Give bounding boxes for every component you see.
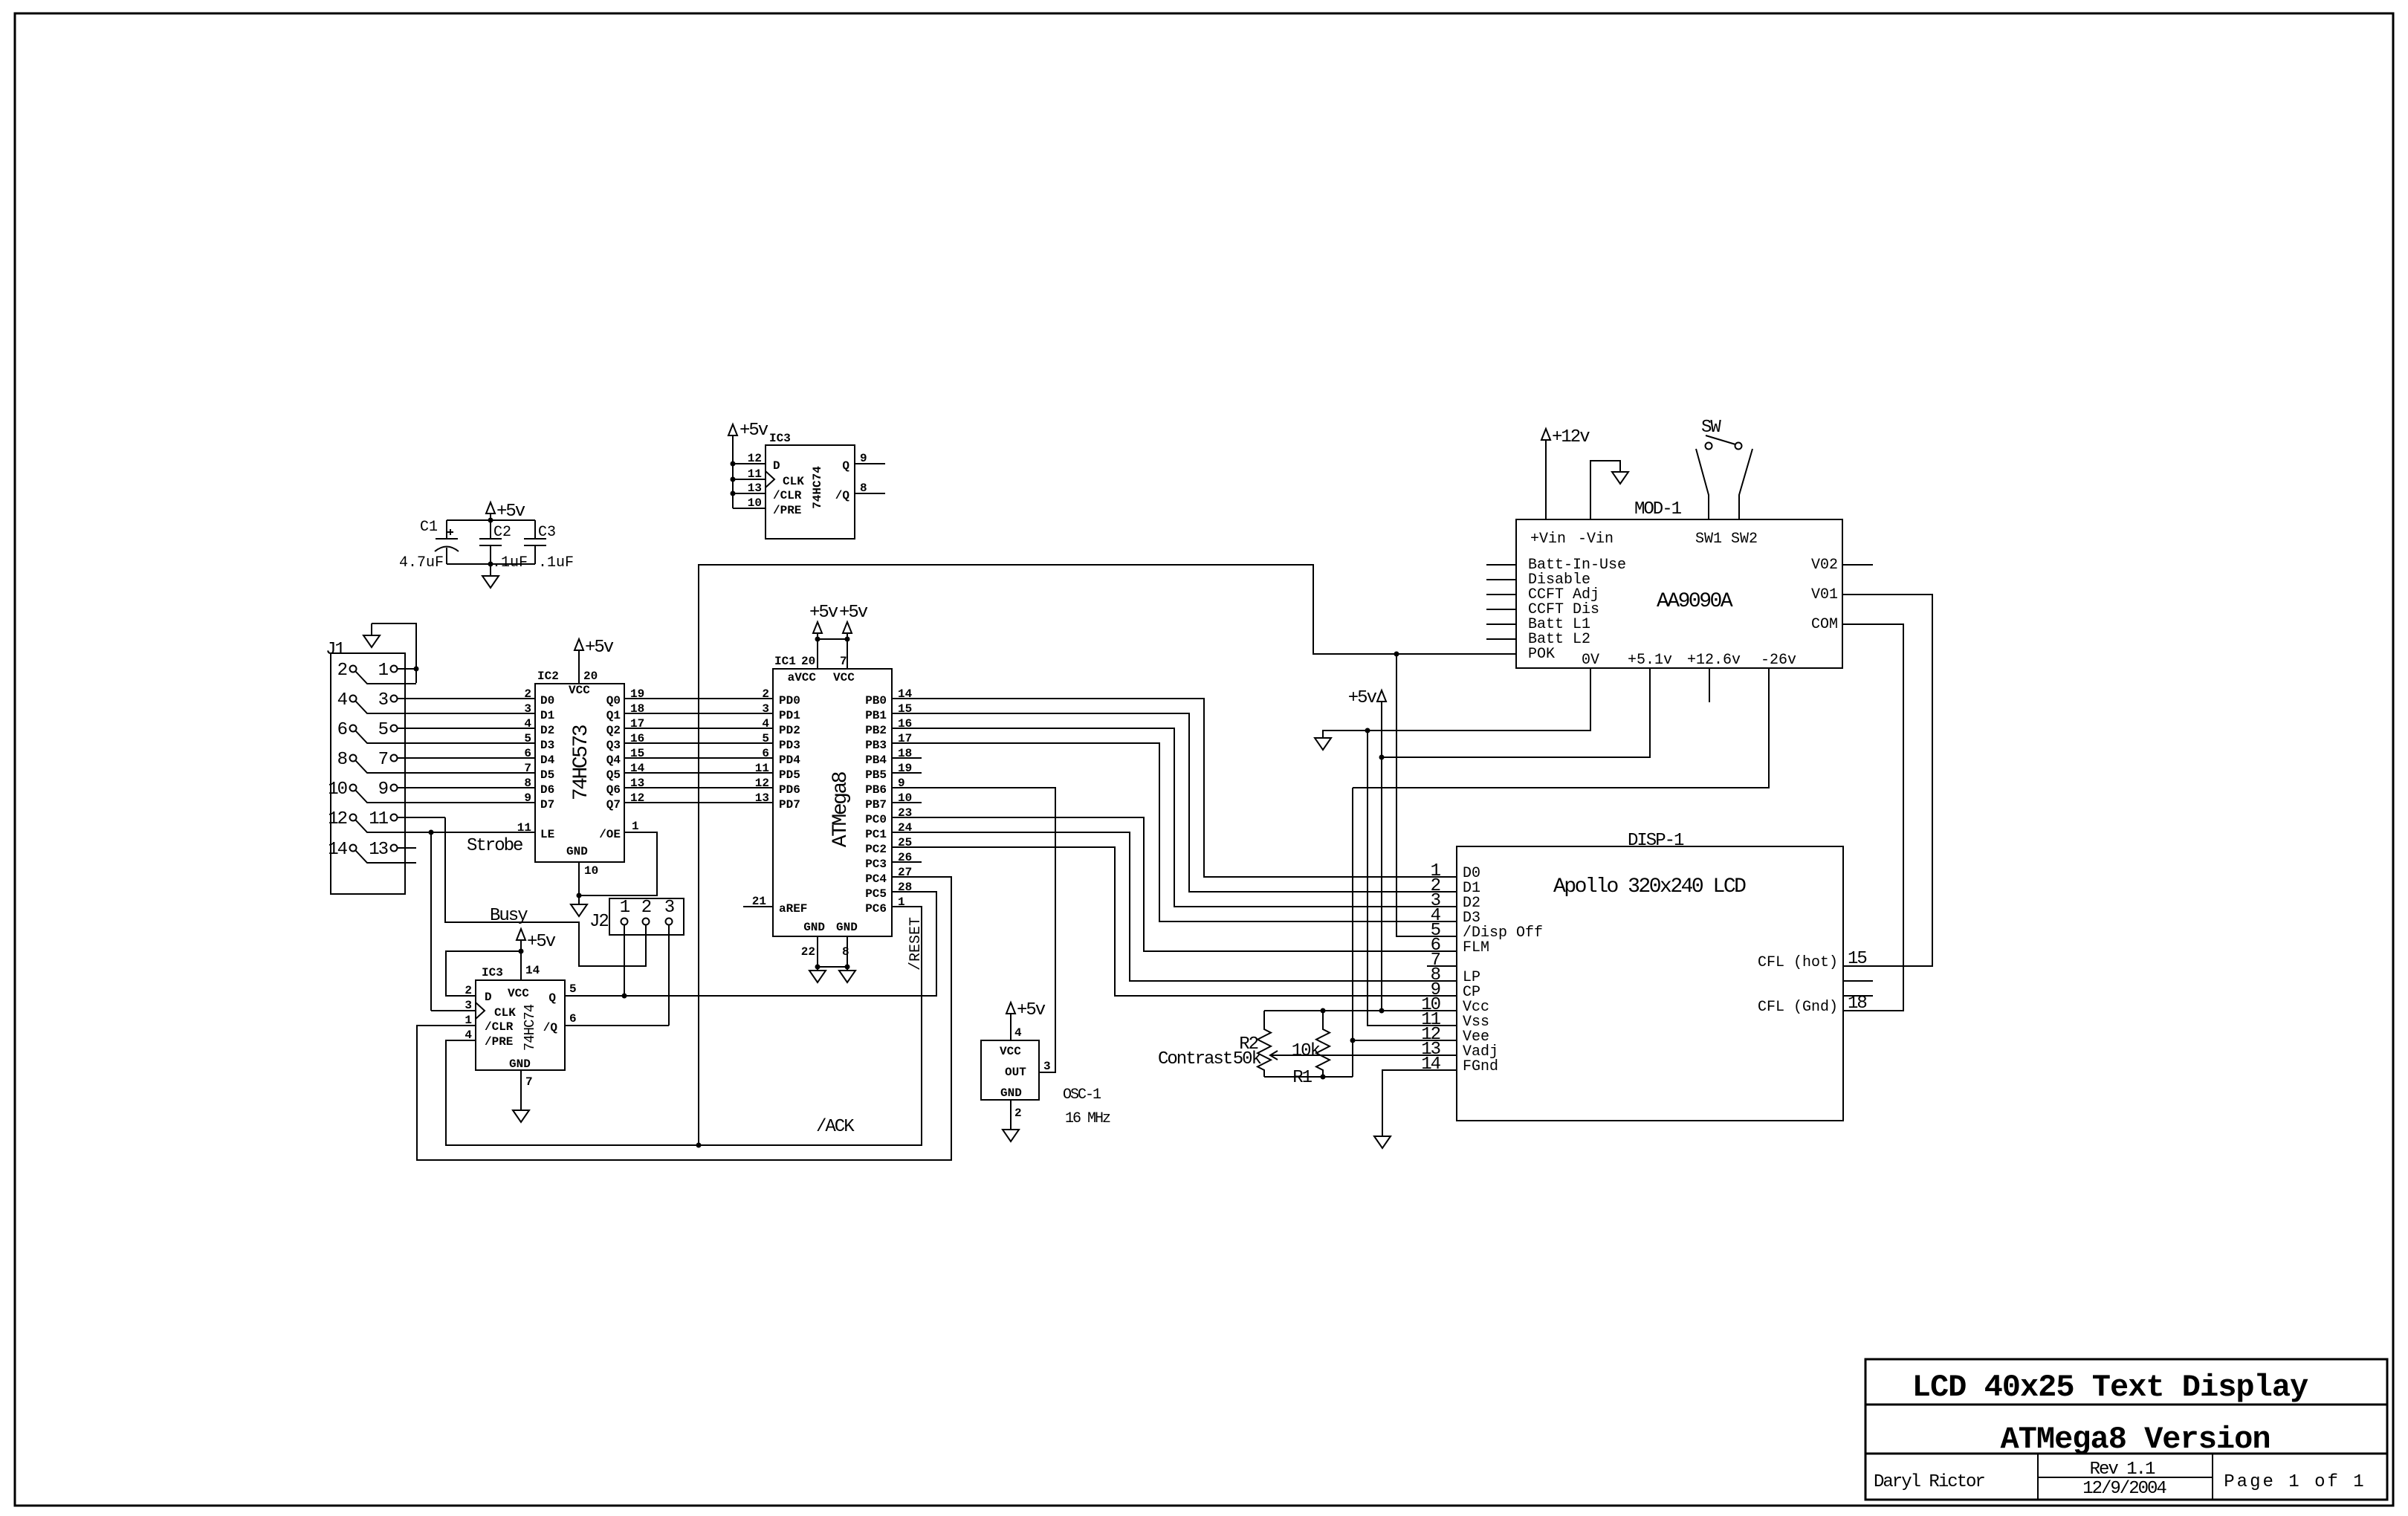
svg-text:13: 13 — [755, 791, 769, 805]
svg-text:C1: C1 — [420, 519, 438, 536]
ground (FGnd) — [1374, 1136, 1391, 1148]
svg-text:V01: V01 — [1811, 586, 1838, 603]
svg-text:PD3: PD3 — [779, 739, 800, 752]
J1 pin 13 — [369, 840, 416, 860]
junction — [622, 994, 627, 999]
ground (OSC-1) — [1003, 1130, 1019, 1141]
svg-text:9: 9 — [524, 791, 531, 805]
wire Vss vertical — [1368, 731, 1457, 1026]
svg-text:/Q: /Q — [835, 489, 850, 502]
ground (IC2) — [571, 904, 587, 916]
ground (0V) — [1315, 738, 1331, 750]
svg-text:1: 1 — [620, 898, 630, 918]
wire MOD left stub — [1486, 609, 1516, 610]
J1 pin 14 — [328, 840, 416, 863]
svg-text:PB0: PB0 — [865, 694, 887, 707]
wire J2 pin1 — [624, 925, 625, 996]
svg-text:+5v: +5v — [1348, 688, 1377, 708]
svg-text:FLM: FLM — [1463, 939, 1489, 956]
svg-text:R1: R1 — [1292, 1068, 1312, 1088]
+5v power symbol (IC2) — [575, 638, 614, 684]
svg-text:PD6: PD6 — [779, 783, 800, 797]
svg-text:aVCC: aVCC — [788, 671, 817, 684]
svg-text:-Vin: -Vin — [1578, 531, 1614, 548]
svg-text:+5v: +5v — [839, 603, 868, 623]
junction — [1394, 652, 1399, 657]
J1 pin 11 — [369, 809, 445, 829]
svg-text:aREF: aREF — [779, 902, 807, 916]
wire aREF stub — [743, 906, 773, 907]
wire Vee — [1353, 1040, 1457, 1041]
wire MOD left stub — [1486, 638, 1516, 640]
svg-text:D: D — [773, 459, 780, 473]
svg-text:+Vin: +Vin — [1530, 531, 1566, 548]
svg-text:Busy: Busy — [490, 906, 528, 926]
junction — [488, 518, 493, 523]
junction — [519, 949, 524, 954]
wire J1 ground net — [372, 623, 416, 683]
svg-text:Page 1 of 1: Page 1 of 1 — [2224, 1472, 2366, 1492]
svg-text:6: 6 — [524, 747, 531, 760]
wire Vadj — [1270, 1055, 1457, 1056]
title block — [1865, 1359, 2387, 1500]
svg-text:COM: COM — [1811, 616, 1838, 633]
wire Q2-PD2 — [624, 728, 773, 729]
svg-text:ATMega8: ATMega8 — [829, 772, 852, 847]
svg-text:PB3: PB3 — [865, 739, 887, 752]
svg-text:2: 2 — [641, 898, 651, 918]
svg-text:D: D — [485, 991, 492, 1004]
svg-text:PD5: PD5 — [779, 768, 800, 782]
display DISP-1 Apollo LCD — [1421, 831, 1866, 1121]
svg-text:VCC: VCC — [833, 671, 855, 684]
junction — [731, 491, 736, 496]
svg-text:Q: Q — [842, 459, 849, 473]
svg-text:AA9090A: AA9090A — [1657, 590, 1733, 613]
svg-text:Q3: Q3 — [606, 739, 621, 752]
junction — [577, 893, 582, 898]
svg-text:4: 4 — [337, 690, 348, 710]
svg-text:PC4: PC4 — [865, 872, 887, 886]
ground (IC3 bottom) — [513, 1110, 529, 1122]
svg-text:14: 14 — [328, 840, 347, 860]
wire IC3b D loop — [446, 951, 521, 996]
svg-text:/OE: /OE — [599, 828, 621, 841]
junction — [731, 461, 736, 467]
J1 pin 5 — [378, 720, 534, 740]
svg-text:PB7: PB7 — [865, 798, 887, 812]
svg-text:14: 14 — [525, 964, 540, 977]
latch IC2 74HC573 — [517, 670, 645, 878]
wire PC5 to IC3 Q — [565, 892, 936, 996]
svg-text:6: 6 — [569, 1012, 577, 1026]
wire IC1 GND pins — [815, 936, 850, 971]
ground (IC1 pin8) — [839, 971, 855, 982]
J1 pin 8 — [337, 750, 534, 773]
wire CFL stub 17 — [1843, 995, 1873, 997]
wire cap bottom rail — [447, 563, 535, 565]
svg-text:5: 5 — [524, 732, 531, 745]
wire MOD left stub — [1486, 594, 1516, 595]
wire Q0-PD0 — [624, 698, 773, 699]
wire 0V net — [1323, 668, 1590, 738]
J1 pin 7 — [378, 750, 534, 770]
svg-text:11: 11 — [517, 821, 531, 835]
wire PB0-D0 — [892, 699, 1457, 877]
J1 pin 4 — [337, 690, 534, 713]
svg-text:+5v: +5v — [809, 603, 838, 623]
wire cap top rail — [447, 519, 535, 521]
junction — [429, 830, 434, 835]
wire POK long net — [699, 565, 1516, 1145]
svg-text:+5.1v: +5.1v — [1628, 652, 1672, 669]
svg-text:CFL (Gnd): CFL (Gnd) — [1758, 999, 1838, 1016]
wire IC3 CLK — [733, 479, 766, 480]
svg-text:PC2: PC2 — [865, 843, 887, 856]
svg-text:Q4: Q4 — [606, 754, 621, 767]
+5v power symbol (OSC-1) — [1006, 1000, 1046, 1040]
svg-text:7: 7 — [525, 1075, 533, 1089]
wire Vee vertical — [1352, 788, 1353, 1077]
svg-text:3: 3 — [762, 702, 769, 716]
wire MOD left stub — [1486, 623, 1516, 625]
svg-text:SW1: SW1 — [1695, 531, 1722, 548]
svg-text:9: 9 — [378, 780, 388, 800]
svg-text:Rev 1.1: Rev 1.1 — [2090, 1460, 2155, 1480]
junction — [414, 667, 419, 672]
svg-text:Contrast: Contrast — [1158, 1049, 1231, 1069]
svg-text:+5v: +5v — [585, 638, 614, 658]
svg-text:LE: LE — [540, 828, 554, 841]
svg-text:PB6: PB6 — [865, 783, 887, 797]
wire IC3b GND — [520, 1070, 522, 1110]
wire /DispOff vertical — [1396, 654, 1457, 936]
svg-text:PC6: PC6 — [865, 902, 887, 916]
svg-text:GND: GND — [836, 921, 858, 934]
wire PC4 /ACK — [417, 877, 951, 1160]
ground (cap bank) — [482, 564, 499, 588]
wire DISP pin7 stub — [1427, 965, 1457, 967]
svg-text:20: 20 — [801, 655, 815, 668]
svg-text:SW: SW — [1701, 418, 1721, 438]
J1 pin 1 — [378, 661, 416, 681]
svg-text:2: 2 — [1014, 1107, 1022, 1120]
svg-text:PB2: PB2 — [865, 724, 887, 737]
junction — [1379, 1008, 1385, 1014]
wire +12.6v stub — [1709, 668, 1710, 702]
svg-text:FGnd: FGnd — [1463, 1058, 1498, 1075]
ground (IC1 pin22) — [809, 971, 826, 982]
wire IC2 /OE to GND — [579, 832, 657, 895]
switch SW — [1696, 418, 1752, 519]
svg-text:2: 2 — [465, 984, 472, 997]
svg-text:4: 4 — [465, 1029, 472, 1042]
svg-text:74HC74: 74HC74 — [811, 466, 824, 509]
svg-text:Q1: Q1 — [606, 709, 621, 722]
junction — [1365, 728, 1370, 733]
wire PC2-CP — [892, 847, 1457, 996]
wire MOD left stub — [1486, 579, 1516, 580]
svg-text:3: 3 — [664, 898, 674, 918]
svg-text:12: 12 — [328, 809, 346, 829]
J1 pin 2 — [337, 661, 416, 684]
svg-text:PD4: PD4 — [779, 754, 800, 767]
svg-text:Q6: Q6 — [606, 783, 621, 797]
svg-text:Daryl Rictor: Daryl Rictor — [1874, 1472, 1984, 1492]
+5v power symbols (IC1) — [809, 603, 868, 669]
svg-text:7: 7 — [378, 750, 388, 770]
junction — [1321, 1075, 1326, 1080]
svg-text:74HC573: 74HC573 — [570, 725, 593, 800]
svg-text:4: 4 — [762, 717, 769, 731]
+5v power symbol (IC3 top) — [728, 421, 768, 508]
svg-text:6: 6 — [762, 747, 769, 760]
svg-text:11: 11 — [755, 762, 769, 775]
wire Busy from J1 pin 11 — [445, 817, 646, 966]
wire PB1-D1 — [892, 713, 1457, 892]
svg-text:J2: J2 — [589, 912, 608, 932]
svg-text:10: 10 — [328, 780, 346, 800]
oscillator OSC-1 16 MHz — [981, 1040, 1110, 1127]
svg-text:+12v: +12v — [1552, 427, 1590, 447]
svg-text:GND: GND — [509, 1057, 531, 1071]
svg-text:3: 3 — [1043, 1060, 1051, 1073]
svg-text:CFL (hot): CFL (hot) — [1758, 954, 1838, 971]
junction — [731, 477, 736, 482]
wire IC2 GND pin — [578, 862, 580, 904]
svg-text:2: 2 — [762, 687, 769, 701]
wire PB4 stub — [892, 757, 922, 759]
svg-text:GND: GND — [1000, 1086, 1022, 1100]
wire Q6-PD6 — [624, 787, 773, 788]
svg-text:8: 8 — [337, 750, 347, 770]
svg-text:/CLR: /CLR — [485, 1020, 514, 1034]
svg-text:+5v: +5v — [496, 502, 525, 522]
module MOD-1 AA9090A — [1516, 499, 1842, 669]
svg-text:1: 1 — [632, 820, 639, 833]
wire pot rail — [1264, 1076, 1353, 1078]
wire IC3 /CLR — [733, 493, 766, 494]
svg-text:MOD-1: MOD-1 — [1634, 499, 1682, 519]
svg-text:8: 8 — [842, 945, 849, 959]
wire Q1-PD1 — [624, 713, 773, 714]
wire PC3 stub — [892, 861, 922, 863]
svg-text:10: 10 — [584, 864, 598, 878]
svg-text:22: 22 — [801, 945, 815, 959]
svg-text:11: 11 — [369, 809, 388, 829]
svg-text:PC1: PC1 — [865, 828, 887, 841]
svg-text:J1: J1 — [326, 640, 345, 660]
wire IC3 D — [733, 463, 766, 464]
wire PB7 stub — [892, 802, 922, 803]
svg-text:Q: Q — [548, 991, 556, 1005]
wire Q7-PD7 — [624, 802, 773, 803]
svg-text:.1uF: .1uF — [492, 554, 528, 571]
svg-text:C3: C3 — [538, 524, 556, 541]
svg-text:5: 5 — [569, 982, 577, 996]
wire V01 to CFL hot — [1842, 595, 1932, 966]
svg-text:3: 3 — [378, 690, 388, 710]
svg-text:PC5: PC5 — [865, 887, 887, 901]
svg-text:15: 15 — [1848, 949, 1866, 969]
op IC3 74HC74 top flip-flop — [748, 432, 867, 539]
wire Q5-PD5 — [624, 772, 773, 774]
svg-text:VCC: VCC — [508, 987, 529, 1000]
svg-text:GND: GND — [803, 921, 825, 934]
svg-text:VCC: VCC — [569, 684, 590, 697]
svg-text:4: 4 — [524, 717, 531, 731]
svg-text:PD1: PD1 — [779, 709, 800, 722]
wire IC3 /PRE — [733, 508, 766, 509]
svg-text:PB4: PB4 — [865, 754, 887, 767]
ground (-Vin) — [1590, 461, 1628, 519]
svg-text:DISP-1: DISP-1 — [1628, 831, 1684, 851]
svg-text:D7: D7 — [540, 798, 554, 812]
svg-text:2: 2 — [524, 687, 531, 701]
svg-text:IC2: IC2 — [537, 670, 559, 683]
wire PB2-D2 — [892, 728, 1457, 907]
junction — [1379, 755, 1385, 760]
wire PB6-OSC — [892, 788, 1055, 1072]
wire COM to CFL gnd — [1842, 624, 1903, 1011]
svg-text:/Q: /Q — [543, 1021, 558, 1034]
svg-text:ATMega8 Version: ATMega8 Version — [2000, 1422, 2270, 1457]
svg-text:PD2: PD2 — [779, 724, 800, 737]
svg-text:/PRE: /PRE — [773, 504, 801, 517]
wire IC3 Q stub — [855, 463, 885, 464]
svg-text:Q2: Q2 — [606, 724, 621, 737]
svg-text:7: 7 — [524, 762, 531, 775]
J1 pin 9 — [378, 780, 534, 800]
junction — [1321, 1008, 1326, 1014]
svg-text:1: 1 — [465, 1014, 472, 1027]
J1 pin 6 — [337, 720, 534, 743]
svg-text:/CLR: /CLR — [773, 489, 802, 502]
svg-text:6: 6 — [337, 720, 347, 740]
svg-text:SW2: SW2 — [1731, 531, 1758, 548]
svg-text:Q7: Q7 — [606, 798, 621, 812]
svg-text:10k: 10k — [1292, 1041, 1321, 1061]
svg-text:CLK: CLK — [494, 1006, 516, 1020]
svg-text:0V: 0V — [1582, 652, 1599, 669]
flipflop IC3 74HC74 bottom — [465, 966, 576, 1089]
svg-text:POK: POK — [1528, 646, 1555, 663]
svg-text:D4: D4 — [540, 754, 555, 767]
svg-text:D6: D6 — [540, 783, 554, 797]
wire PB5 stub — [892, 772, 922, 774]
svg-text:PB1: PB1 — [865, 709, 887, 722]
svg-text:Apollo 320x240 LCD: Apollo 320x240 LCD — [1553, 875, 1746, 898]
svg-text:/ACK: /ACK — [816, 1117, 855, 1137]
+5v power symbol (cap bank) — [486, 502, 525, 522]
capacitor C3 — [524, 520, 574, 571]
wire Q3-PD3 — [624, 742, 773, 744]
connector J2 — [589, 898, 684, 935]
wire +5.1v net — [1382, 668, 1650, 757]
svg-text:CLK: CLK — [783, 475, 804, 488]
svg-text:50k: 50k — [1233, 1049, 1262, 1069]
J1 pin 3 — [378, 690, 534, 710]
wire Vcc — [1264, 1010, 1457, 1011]
svg-text:PC0: PC0 — [865, 813, 887, 826]
mcu IC1 ATMega8 — [752, 655, 913, 959]
svg-text:+5v: +5v — [739, 421, 768, 441]
potentiometer R2 50k (Contrast) — [1233, 1011, 1278, 1077]
svg-text:4.7uF: 4.7uF — [399, 554, 444, 571]
wire IC3 /Q stub — [855, 493, 885, 494]
wire FGnd — [1382, 1070, 1457, 1136]
svg-text:4: 4 — [1014, 1026, 1022, 1040]
svg-text:D1: D1 — [540, 709, 554, 722]
svg-text:/PRE: /PRE — [485, 1035, 513, 1049]
svg-text:12: 12 — [755, 777, 769, 790]
+5v power symbol (display) — [1348, 688, 1386, 1011]
svg-text:12/9/2004: 12/9/2004 — [2082, 1479, 2166, 1499]
svg-text:74HC74: 74HC74 — [522, 1004, 538, 1051]
svg-text:2: 2 — [337, 661, 347, 681]
svg-text:OUT: OUT — [1005, 1066, 1026, 1079]
connector J1 — [326, 640, 405, 894]
svg-text:IC3: IC3 — [769, 432, 791, 445]
svg-text:IC1: IC1 — [774, 655, 796, 668]
svg-text:Q5: Q5 — [606, 768, 621, 782]
svg-text:VCC: VCC — [1000, 1045, 1021, 1058]
svg-text:+5v: +5v — [527, 932, 556, 952]
svg-text:+12.6v: +12.6v — [1687, 652, 1741, 669]
svg-text:Strobe: Strobe — [467, 836, 522, 856]
svg-text:IC3: IC3 — [482, 966, 503, 979]
J1 pin 10 — [328, 780, 534, 803]
svg-text:+5v: +5v — [1017, 1000, 1046, 1020]
svg-text:5: 5 — [762, 732, 769, 745]
svg-text:OSC-1: OSC-1 — [1063, 1086, 1101, 1104]
svg-text:3: 3 — [524, 702, 531, 716]
wire OSC GND — [1010, 1100, 1012, 1130]
resistor R1 10k — [1292, 1011, 1330, 1088]
svg-text:20: 20 — [583, 670, 598, 683]
wire PC1-LP — [892, 832, 1457, 981]
wire J2 pin3 — [668, 925, 670, 1026]
svg-text:.1uF: .1uF — [538, 554, 574, 571]
svg-text:V02: V02 — [1811, 557, 1838, 574]
capacitor C2 — [479, 520, 528, 571]
ground (J1 pins 1,2) — [363, 623, 380, 647]
junction — [488, 562, 493, 567]
wire IC3b CLK (Strobe) — [431, 1010, 476, 1011]
wire PC0-FLM — [892, 817, 1457, 951]
capacitor C1 — [399, 519, 459, 571]
svg-text:18: 18 — [1848, 994, 1866, 1014]
svg-text:C2: C2 — [493, 524, 511, 541]
svg-text:D5: D5 — [540, 768, 554, 782]
svg-text:D0: D0 — [540, 694, 554, 707]
wire IC3b /Q — [565, 1025, 669, 1026]
svg-text:-26v: -26v — [1761, 652, 1796, 669]
+5v power symbol (IC3 bottom) — [517, 929, 556, 980]
wire CFL stub 16 — [1843, 980, 1873, 982]
svg-text:GND: GND — [566, 845, 588, 858]
wire PC6 /RESET net — [446, 907, 922, 1145]
wire -26v net — [1353, 668, 1769, 788]
svg-text:8: 8 — [524, 777, 531, 790]
wire Q4-PD4 — [624, 757, 773, 759]
svg-text:D2: D2 — [540, 724, 554, 737]
wire Strobe vertical — [430, 832, 432, 1011]
J1 pin 12 — [328, 809, 534, 832]
+12v power symbol — [1541, 427, 1590, 519]
svg-text:5: 5 — [378, 720, 388, 740]
wire MOD left stub — [1486, 564, 1516, 566]
